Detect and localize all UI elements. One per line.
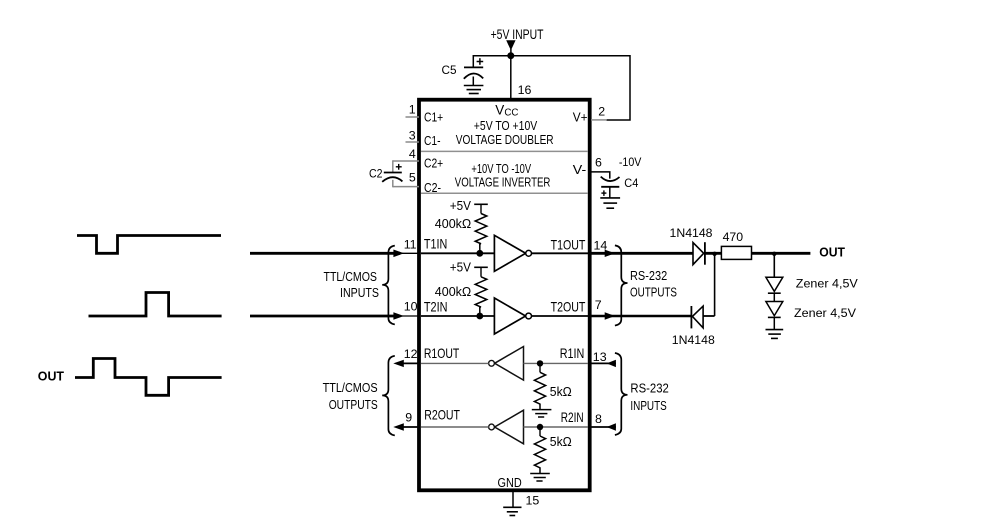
svg-text:VOLTAGE INVERTER: VOLTAGE INVERTER [455,175,551,190]
zener Z1 [766,277,783,291]
capacitor C4 curved plate [601,177,620,181]
arrowhead into pin 11 [393,250,404,258]
svg-text:V-: V- [573,162,586,177]
svg-text:OUT: OUT [38,369,64,384]
svg-text:Zener 4,5V: Zener 4,5V [794,306,857,320]
receiver R2 bubble [489,424,495,430]
wire junction down to D2 [714,253,716,316]
arrowhead out of pin 14 [605,250,615,257]
pin 16 wire [510,56,512,99]
svg-text:C5: C5 [442,63,457,77]
capacitor C2 top wire [392,160,394,172]
wire pin 14 to diode D1 [591,252,693,255]
wire node to V+ loop [511,56,630,120]
capacitor C2 curved plate [382,177,402,182]
capacitor C4 plus sign [601,192,606,194]
resistor 5k (2) stub [539,430,541,437]
svg-text:6: 6 [595,155,602,169]
svg-text:11: 11 [404,238,417,252]
svg-text:470: 470 [723,230,744,244]
resistor 400k (1) zigzag [475,214,487,254]
arrowhead out of pin 9 [393,423,404,430]
svg-text:-10V: -10V [619,155,642,169]
thin wire arrow to chip edge pin 10 [402,315,419,317]
svg-text:8: 8 [595,412,602,426]
wire T2OUT inside chip [532,315,589,317]
svg-text:Zener 4,5V: Zener 4,5V [796,277,859,291]
wire node to C5 [473,56,511,68]
wire Z1 to Z2 [773,293,775,301]
svg-text:T2OUT: T2OUT [551,300,586,315]
capacitor C4 stem [609,187,611,198]
diode D2 cathode bar [690,306,692,328]
svg-text:T2IN: T2IN [424,300,448,315]
svg-text:1: 1 [409,102,416,116]
svg-text:V+: V+ [573,110,588,125]
svg-text:C4: C4 [624,176,638,190]
diode D2 triangle [692,306,703,328]
thin wire arrow to chip edge pin 11 [402,252,419,254]
svg-text:R2IN: R2IN [561,410,584,425]
brace TTL/CMOS outputs [382,356,395,436]
svg-text:RS-232: RS-232 [630,382,668,396]
brace RS-232 inputs [615,353,628,435]
capacitor C4 bottom plate [601,186,619,188]
wire R2OUT stub outside [400,426,419,428]
svg-text:+5V INPUT: +5V INPUT [491,27,544,42]
+5V rail bar transmitter 2 [474,266,488,268]
pin 2 stub [591,119,607,121]
pin 15 wire [512,491,514,507]
resistor 400k (2) zigzag [475,277,487,316]
svg-text:INPUTS: INPUTS [630,399,666,413]
svg-text:2: 2 [598,105,605,119]
wire to pin 11 [250,252,400,255]
capacitor C2 top plate [384,172,402,174]
wire T2IN inside chip [421,315,495,317]
pin 6 stub wire [591,172,610,179]
capacitor C5 stem to ground [472,77,474,86]
svg-text:C2: C2 [369,167,383,181]
svg-text:9: 9 [405,411,412,425]
ground below C4 [600,198,620,208]
arrowhead into pin 10 [393,312,404,320]
junction node at zener tap [772,252,776,256]
svg-text:C2+: C2+ [424,156,443,171]
svg-text:3: 3 [409,128,416,142]
svg-text:12: 12 [404,347,418,361]
wire to pin 10 [250,315,400,318]
svg-text:OUT: OUT [819,245,845,260]
ground below zeners [766,330,784,339]
svg-text:1N4148: 1N4148 [672,333,715,347]
svg-text:15: 15 [526,493,540,507]
svg-text:OUTPUTS: OUTPUTS [329,398,378,412]
node R1IN/5k [537,360,543,366]
svg-text:R1IN: R1IN [560,346,585,361]
inverter U1A triangle [494,235,525,271]
divider below inverter section [421,192,588,194]
inverter U1A bubble [526,250,532,256]
resistor 470 box [721,246,751,259]
wire R1IN inside chip [524,362,589,364]
wire pin 7 to diode D2 [591,315,691,317]
svg-text:+5V: +5V [450,198,472,213]
node T1IN/pullup [476,250,483,257]
capacitor C5 curved plate [464,73,483,78]
wire T1OUT inside chip [532,252,589,254]
diode D1 triangle [693,243,704,265]
svg-text:4: 4 [409,147,416,161]
wire resistor 470 to OUT [752,252,811,255]
ground below 5k (1) [532,410,552,417]
wire R2OUT inside chip [421,426,489,428]
svg-text:R1OUT: R1OUT [424,346,459,361]
wire Z2 to ground [773,317,775,329]
diode D1 cathode bar [704,242,706,265]
+5V input arrow [506,40,515,50]
svg-text:C2-: C2- [424,180,441,195]
inverter U1B triangle [494,298,525,334]
svg-text:INPUTS: INPUTS [340,286,379,300]
brace TTL/CMOS inputs [382,246,395,325]
svg-text:1N4148: 1N4148 [670,226,713,240]
node R2IN/5k [537,424,543,430]
svg-text:C1+: C1+ [424,109,443,124]
wire R1OUT inside chip [421,362,489,364]
wire to pin 13 outside [591,362,616,364]
wire D1 to resistor 470 [705,252,722,255]
wire to pin 8 outside [591,426,616,428]
capacitor C5 plus sign [477,61,484,63]
svg-text:TTL/CMOS: TTL/CMOS [324,270,378,284]
waveform 1 (T1IN input pulse) [77,236,221,254]
svg-text:+5V TO +10V: +5V TO +10V [474,118,538,133]
wire D2 to junction [703,315,715,317]
resistor 5k (2) zigzag [534,436,545,473]
brace RS-232 outputs [615,245,628,325]
svg-text:5: 5 [409,170,416,184]
svg-text:VOLTAGE DOUBLER: VOLTAGE DOUBLER [456,132,554,147]
capacitor C2 bottom wire [392,180,394,188]
zener Z2 [766,302,783,316]
pin 3 stub [406,141,420,143]
svg-text:T1IN: T1IN [424,237,447,252]
junction node at D1/D2 [712,252,716,256]
inverter U1B bubble [526,313,532,319]
svg-text:+5V: +5V [450,259,472,274]
svg-text:400kΩ: 400kΩ [435,217,472,231]
ground below pin 15 [503,507,521,515]
wire arrow to node [510,49,512,56]
pin 4 stub [393,160,419,162]
arrowhead out of pin 7 [605,312,615,319]
node T2IN/pullup [476,313,483,320]
svg-text:TTL/CMOS: TTL/CMOS [323,381,378,395]
svg-text:OUTPUTS: OUTPUTS [630,285,677,299]
svg-text:7: 7 [595,298,602,312]
arrowhead out of pin 12 [393,360,404,367]
ground below 5k (2) [530,474,550,482]
resistor 5k (1) stub [539,366,541,372]
wire R1OUT stub outside [400,362,419,364]
svg-text:C1-: C1- [424,133,441,148]
waveform 2 (T2IN input pulse) [89,293,222,317]
arrowhead into pin 13 [607,360,616,367]
receiver R2 triangle [495,410,524,444]
node at +5V input [507,52,514,59]
IC body U1 [419,100,590,491]
arrowhead into pin 8 [607,423,616,430]
svg-text:5kΩ: 5kΩ [550,385,572,399]
wire T1IN inside chip [421,252,495,254]
pin 1 stub [406,116,420,118]
divider between doubler and inverter sections [421,150,588,152]
svg-text:13: 13 [593,350,607,364]
svg-text:10: 10 [404,300,418,314]
capacitor C5 top plate [464,66,483,68]
receiver R1 bubble [489,360,495,366]
svg-text:GND: GND [498,475,522,490]
waveform 3 (RS-232 OUT bipolar) [75,359,222,396]
+5V rail bar transmitter 1 [474,203,488,205]
resistor 5k (1) zigzag [534,372,545,409]
pin 5 stub [393,186,419,188]
capacitor C2 plus sign [396,166,402,168]
svg-text:5kΩ: 5kΩ [550,435,572,449]
svg-text:+10V TO -10V: +10V TO -10V [471,161,531,176]
ground below C5 [464,86,484,94]
svg-text:R2OUT: R2OUT [424,407,460,422]
svg-text:RS-232: RS-232 [630,269,667,283]
wire R2IN inside chip [524,426,589,428]
svg-text:16: 16 [518,83,532,97]
wire down to zeners [773,253,775,277]
svg-text:T1OUT: T1OUT [551,238,586,253]
receiver R1 triangle [495,347,524,381]
svg-text:400kΩ: 400kΩ [435,285,472,299]
